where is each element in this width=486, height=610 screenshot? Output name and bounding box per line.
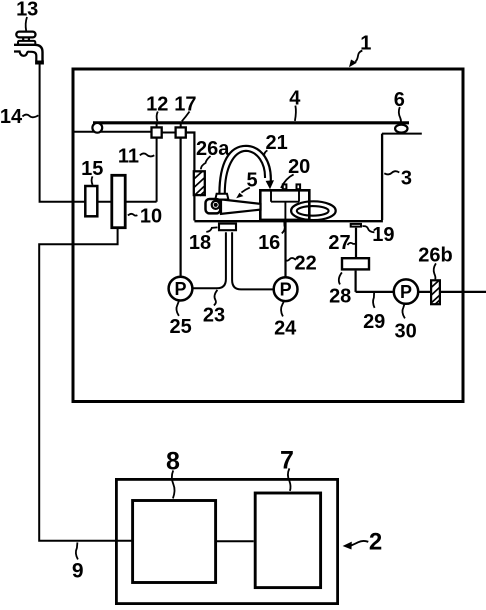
wire: feed line from faucet down and right to filter 15 — [40, 64, 157, 202]
nozzle body 5 — [206, 199, 221, 213]
label 5 with arrow — [236, 170, 257, 199]
nozzle holder 18 — [219, 224, 236, 231]
svg-text:25: 25 — [169, 316, 191, 338]
wire: stub line under valve 6 — [382, 133, 422, 135]
block 7 — [255, 493, 320, 588]
label 11 — [118, 145, 154, 167]
svg-text:11: 11 — [118, 145, 139, 167]
label 27 — [328, 232, 355, 254]
wire: link between block 8 and block 7 — [217, 540, 254, 542]
label 15 — [81, 158, 103, 185]
label 12 — [146, 93, 168, 121]
nozzle arm (5) — [221, 199, 261, 214]
label 24 — [274, 301, 297, 339]
svg-text:2: 2 — [369, 529, 382, 556]
svg-text:P: P — [174, 279, 186, 299]
wire: lower pipe line from box edge to valve 12 — [75, 131, 152, 133]
svg-text:19: 19 — [372, 224, 394, 246]
svg-text:28: 28 — [329, 286, 351, 308]
box 2 (controller enclosure) — [116, 479, 337, 603]
label 13 — [16, 0, 38, 31]
svg-text:14: 14 — [0, 106, 23, 128]
wire: from box 20 down to pump 24 — [284, 220, 286, 278]
label 1 with arrow — [349, 32, 371, 67]
valve 17 — [176, 124, 186, 138]
box 20 (dispenser body) — [260, 184, 309, 220]
pump 25 — [169, 277, 193, 301]
svg-text:18: 18 — [189, 232, 211, 254]
faucet 13 — [14, 32, 43, 64]
nozzle mount bracket — [215, 194, 228, 200]
tube 23: twin lines from nozzle holder 18 down to pumps — [193, 232, 226, 288]
box 1 (main unit enclosure) — [73, 69, 463, 402]
label 16 — [258, 222, 285, 254]
svg-text:21: 21 — [265, 132, 287, 154]
wire 27: from sensor 19 down to box 28 — [355, 228, 357, 257]
platform 16 (base line) — [194, 220, 383, 222]
sensor 19 (small block under platform) — [351, 224, 361, 227]
tank 10 — [112, 175, 125, 227]
label 26b — [418, 245, 452, 280]
svg-text:3: 3 — [401, 167, 412, 189]
pipe 3 (right downcomer) — [381, 134, 383, 220]
svg-text:26a: 26a — [196, 138, 230, 160]
svg-text:17: 17 — [174, 93, 196, 115]
label 29 — [363, 293, 385, 333]
label 28 — [329, 272, 351, 307]
label 9 — [72, 542, 84, 582]
wire 29: to pump 30 — [356, 291, 394, 293]
label 30 — [394, 304, 416, 342]
label 10 — [128, 205, 162, 227]
label 23 — [203, 290, 225, 326]
valve 6 (oval on pipe 4 end) — [395, 125, 407, 133]
wire: from valve 17 right to chamber wall then down — [186, 133, 195, 221]
svg-text:30: 30 — [394, 320, 416, 342]
svg-text:29: 29 — [363, 311, 385, 333]
label 4 — [289, 88, 301, 121]
svg-text:P: P — [400, 282, 412, 302]
pump 30 — [394, 279, 418, 303]
svg-text:9: 9 — [72, 559, 84, 582]
heater 26a (hatched block) — [194, 171, 205, 196]
wire: from valve 17 down to pump 25 — [180, 138, 182, 277]
label 19 — [362, 224, 394, 246]
pipe 4 (thick main pipe) — [93, 121, 409, 124]
label 8 — [166, 447, 180, 498]
wire: from box 28 down to line 29 — [355, 271, 357, 292]
label 26a — [196, 138, 230, 170]
wire: from pump 30 right through 26b to outside — [418, 291, 486, 293]
pump 24 — [274, 277, 298, 301]
box 28 — [342, 258, 369, 269]
label 14 — [0, 106, 38, 128]
svg-text:7: 7 — [280, 447, 294, 475]
svg-text:23: 23 — [203, 304, 225, 326]
label 25 — [169, 301, 191, 338]
nozzle pivot rings — [212, 201, 220, 209]
label 18 — [189, 227, 218, 254]
block 8 — [133, 501, 216, 583]
label 22 — [286, 252, 317, 274]
end cap circle on pipe 4 — [92, 123, 102, 133]
wire: riser from valve 12 down to feed line — [156, 138, 158, 202]
svg-text:10: 10 — [140, 205, 162, 227]
label 17 — [174, 93, 196, 121]
valve 12 — [152, 124, 162, 138]
svg-text:20: 20 — [288, 156, 310, 178]
arrowhead of tube 21 — [266, 180, 274, 189]
svg-text:16: 16 — [258, 232, 280, 254]
svg-text:27: 27 — [328, 232, 350, 254]
wire: link between valve 12 and valve 17 — [162, 132, 176, 134]
filter 15 — [85, 186, 97, 216]
label 3 — [384, 167, 412, 189]
arc tube 21 (double line) — [219, 146, 270, 194]
label 6 — [394, 89, 405, 124]
label 7 — [280, 447, 294, 491]
svg-text:P: P — [280, 280, 292, 300]
label 2 with arrow — [343, 529, 383, 556]
hose 22 loop (coiled tube) — [291, 201, 336, 220]
wire: drain line 9 from tank 10 down-left to controller box 2 — [39, 228, 132, 541]
label 21 — [264, 132, 288, 156]
svg-text:22: 22 — [294, 252, 316, 274]
heater 26b (hatched block) — [431, 280, 440, 304]
svg-text:24: 24 — [274, 318, 297, 340]
label 20 — [281, 156, 310, 188]
